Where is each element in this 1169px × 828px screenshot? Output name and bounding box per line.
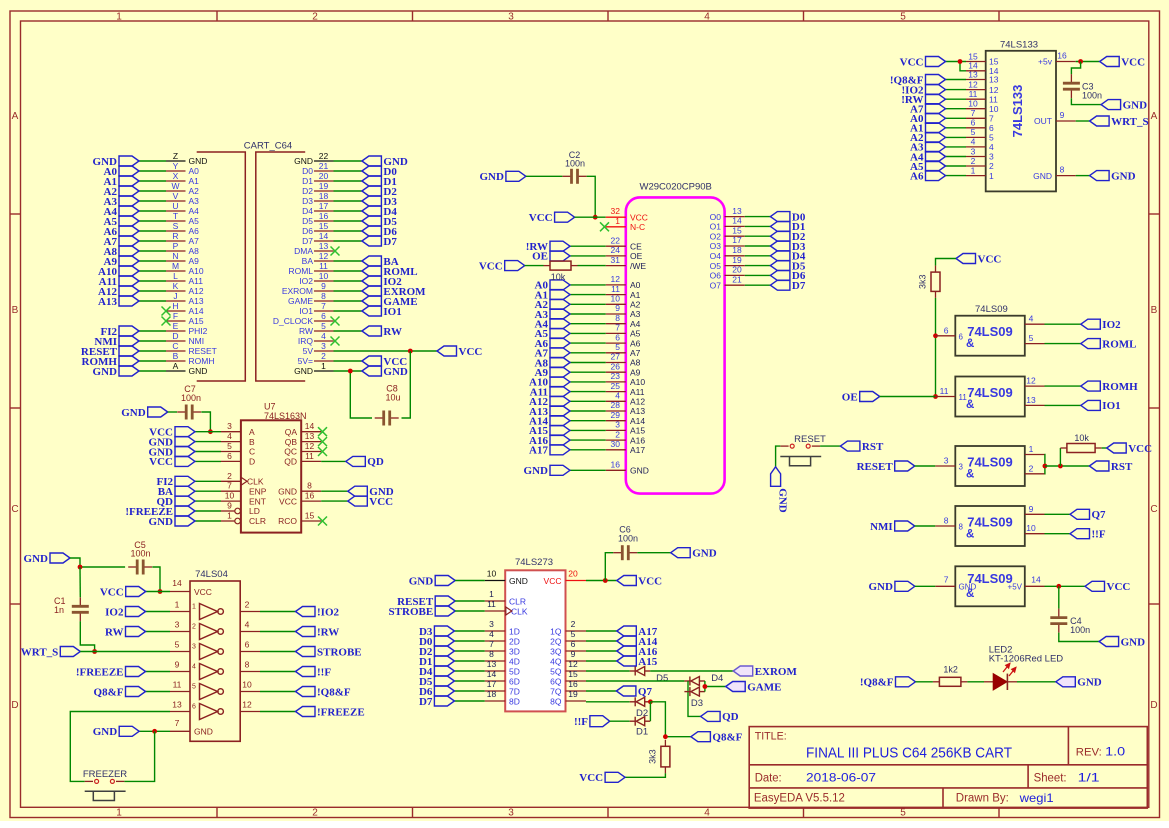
svg-text:26: 26 bbox=[611, 361, 621, 371]
svg-text:K: K bbox=[173, 281, 179, 291]
svg-text:10u: 10u bbox=[385, 393, 400, 403]
svg-text:VCC: VCC bbox=[149, 456, 173, 468]
svg-text:7D: 7D bbox=[509, 687, 520, 697]
wire net ROMH to CART_C64 pin B bbox=[139, 360, 166, 362]
net flag RW bbox=[362, 326, 402, 338]
svg-text:30: 30 bbox=[611, 439, 621, 449]
svg-text:NMI: NMI bbox=[189, 336, 205, 346]
wire C6 branch bbox=[605, 553, 613, 581]
svg-text:ROML: ROML bbox=[288, 266, 313, 276]
svg-text:VCC: VCC bbox=[1128, 443, 1152, 455]
net flag ROMH bbox=[1081, 381, 1138, 393]
svg-text:74LS04: 74LS04 bbox=[195, 569, 228, 580]
net flag RST at switch bbox=[840, 441, 884, 453]
connector CART_C64 right pin 15 D6 bbox=[302, 221, 333, 236]
wire FREEZER switch to GND bbox=[124, 731, 154, 781]
IC 74LS09 pin 7 GND bbox=[935, 574, 976, 591]
svg-text:8: 8 bbox=[321, 291, 326, 301]
svg-text:20: 20 bbox=[568, 569, 578, 579]
wire CART_C64 pin 12 to net BA bbox=[334, 260, 362, 262]
svg-text:BA: BA bbox=[302, 256, 314, 266]
svg-text:13: 13 bbox=[732, 206, 742, 216]
svg-text:GND: GND bbox=[93, 726, 118, 738]
wire net GND to CART_C64 pin A bbox=[139, 370, 166, 372]
svg-text:VCC: VCC bbox=[194, 587, 212, 597]
wire net FI2 to CART_C64 pin E bbox=[139, 330, 166, 332]
svg-text:3: 3 bbox=[508, 12, 514, 23]
IC U7 pin 7 ENP bbox=[221, 481, 267, 497]
svg-text:22: 22 bbox=[319, 151, 329, 161]
svg-text:3k3: 3k3 bbox=[918, 274, 928, 289]
svg-text:74LS09: 74LS09 bbox=[967, 515, 1013, 530]
svg-text:ENP: ENP bbox=[249, 486, 267, 496]
svg-text:16: 16 bbox=[1057, 51, 1067, 61]
net flag !IO2 bbox=[296, 606, 340, 618]
svg-text:GND: GND bbox=[189, 366, 208, 376]
connector CART_C64 left pin J A13 bbox=[166, 291, 204, 306]
svg-text:A15: A15 bbox=[630, 426, 645, 436]
svg-text:A2: A2 bbox=[630, 300, 641, 310]
IC 74LS133 pin 16 +5v bbox=[1038, 51, 1076, 67]
svg-text:A6: A6 bbox=[189, 226, 200, 236]
svg-text:1: 1 bbox=[489, 589, 494, 599]
no-connect X on U7 pin 12 bbox=[318, 447, 327, 456]
svg-text:8D: 8D bbox=[509, 697, 520, 707]
svg-text:CLK: CLK bbox=[511, 607, 528, 617]
resistor 1k2 bbox=[933, 677, 968, 686]
IC U2 pin 13 O0 bbox=[710, 206, 745, 222]
svg-text:N-C: N-C bbox=[630, 222, 645, 232]
svg-text:11: 11 bbox=[487, 599, 496, 609]
IC U2 pin 24 OE bbox=[606, 245, 643, 261]
svg-text:15: 15 bbox=[732, 225, 742, 235]
svg-text:6: 6 bbox=[989, 123, 994, 133]
svg-text:A5: A5 bbox=[189, 216, 200, 226]
IC U2 pin 22 CE bbox=[606, 235, 642, 251]
svg-text:9: 9 bbox=[175, 660, 180, 670]
connector CART_C64 right pin 18 D3 bbox=[302, 191, 333, 206]
svg-text:OE: OE bbox=[842, 391, 858, 403]
wire net A4 to CART_C64 pin U bbox=[139, 210, 166, 212]
IC 74LS09 input pin 3 bbox=[935, 456, 963, 472]
net flag D2 bbox=[362, 186, 397, 198]
svg-text:ROMH: ROMH bbox=[1102, 381, 1138, 393]
svg-text:5: 5 bbox=[1029, 333, 1034, 343]
net flag GND at C5 bbox=[24, 553, 70, 565]
net flag A11 bbox=[99, 276, 139, 288]
svg-text:A2: A2 bbox=[189, 186, 200, 196]
wire VCC flag to resistor 10k bbox=[525, 265, 544, 267]
wire 3k3 to VCC bbox=[625, 773, 665, 777]
IC 74LS273 pin 17 7D bbox=[485, 679, 520, 697]
svg-text:J: J bbox=[173, 291, 177, 301]
svg-text:O3: O3 bbox=[710, 241, 722, 251]
svg-text:A12: A12 bbox=[189, 286, 204, 296]
wire CART_C64 pin 1 to net GND bbox=[334, 370, 362, 372]
frame column labels top bbox=[116, 12, 906, 23]
svg-text:GND: GND bbox=[959, 583, 977, 592]
svg-text:18: 18 bbox=[319, 191, 329, 201]
wire 74LS273 5Q to diode D5 bbox=[586, 670, 630, 672]
svg-text:B: B bbox=[249, 437, 255, 447]
svg-text:2: 2 bbox=[245, 600, 250, 610]
svg-text:GND: GND bbox=[189, 156, 208, 166]
svg-text:13: 13 bbox=[989, 75, 999, 85]
svg-text:13: 13 bbox=[487, 659, 497, 669]
IC 74LS04 body bbox=[190, 581, 240, 741]
svg-text:ROMH: ROMH bbox=[189, 356, 215, 366]
svg-text:10k: 10k bbox=[551, 272, 566, 282]
svg-text:16: 16 bbox=[319, 211, 329, 221]
capacitor C6 bbox=[613, 545, 637, 560]
wire A4 to flash pin 8 bbox=[570, 323, 606, 325]
wire CART_C64 pin 2 to net VCC bbox=[334, 360, 362, 362]
svg-text:3: 3 bbox=[971, 146, 976, 156]
net flag !RW bbox=[296, 626, 340, 638]
svg-text:19: 19 bbox=[732, 255, 742, 265]
IC U2 pin 27 A8 bbox=[606, 352, 641, 368]
IC 74LS133 pin 1 bbox=[966, 165, 994, 180]
svg-text:1: 1 bbox=[227, 511, 232, 521]
wire A1 to 74LS133 pin 6 bbox=[946, 127, 967, 129]
wire net GND to CART_C64 pin Z bbox=[139, 160, 166, 162]
svg-text:RW: RW bbox=[105, 626, 124, 638]
wire GND flag to C5 and C1 bbox=[70, 558, 125, 567]
svg-text:1.0: 1.0 bbox=[1105, 744, 1125, 758]
svg-text:11: 11 bbox=[319, 261, 328, 271]
IC U7 pin 2 CLK bbox=[221, 471, 264, 487]
svg-text:20: 20 bbox=[319, 171, 329, 181]
svg-text:GND: GND bbox=[278, 486, 297, 496]
svg-text:VCC: VCC bbox=[279, 496, 297, 506]
svg-text:27: 27 bbox=[611, 352, 621, 362]
svg-text:5: 5 bbox=[321, 321, 326, 331]
connector CART_C64 right pin 9 EXROM bbox=[282, 281, 334, 296]
svg-text:A13: A13 bbox=[630, 406, 645, 416]
net flag A13 bbox=[529, 406, 570, 418]
svg-text:D: D bbox=[1150, 700, 1157, 711]
wire flash pin 20 to D6 bbox=[745, 274, 771, 276]
svg-text:P: P bbox=[173, 241, 179, 251]
net flag A2 bbox=[104, 186, 139, 198]
svg-text:10k: 10k bbox=[1074, 433, 1089, 443]
svg-text:2: 2 bbox=[971, 156, 976, 166]
svg-text:IO2: IO2 bbox=[299, 276, 313, 286]
svg-text:VCC: VCC bbox=[1107, 581, 1131, 593]
net flag WRT_S bbox=[21, 646, 81, 658]
wire 74LS09 pin 4 to IO2 bbox=[1045, 323, 1081, 325]
svg-text:8Q: 8Q bbox=[550, 697, 562, 707]
net flag !!F output bbox=[1070, 529, 1106, 541]
wire 74LS133 pin16 to VCC bbox=[1076, 61, 1100, 63]
wire 74LS04 pin 2 to !IO2 bbox=[260, 611, 296, 613]
svg-text:/WE: /WE bbox=[630, 261, 646, 271]
net flag GND at C7 bbox=[121, 407, 167, 419]
svg-text:OUT: OUT bbox=[1034, 116, 1052, 126]
svg-text:5: 5 bbox=[571, 629, 576, 639]
IC 74LS133 pin 6 bbox=[966, 118, 994, 133]
svg-text:O6: O6 bbox=[710, 271, 722, 281]
IC U7 pin 8 GND bbox=[278, 481, 321, 497]
svg-text:QA: QA bbox=[285, 427, 298, 437]
svg-text:4: 4 bbox=[989, 142, 994, 152]
svg-text:1: 1 bbox=[1029, 444, 1034, 454]
IC 74LS133 pin 15 bbox=[966, 51, 999, 66]
wire U7 pin 16 to VCC bbox=[321, 500, 348, 502]
svg-text:31: 31 bbox=[611, 255, 621, 265]
svg-text:7: 7 bbox=[227, 481, 232, 491]
net flag GAME bbox=[362, 296, 418, 308]
net flag RST bbox=[1089, 461, 1133, 473]
net flag VCC at 3k3 pullup bbox=[956, 253, 1001, 265]
net flag A16 bbox=[617, 646, 658, 658]
wire CART_C64 pin 3 5V to VCC bbox=[334, 350, 438, 352]
svg-text:5: 5 bbox=[192, 684, 196, 691]
svg-text:GND: GND bbox=[692, 548, 717, 560]
net flag VCC at 10k pullup bbox=[479, 260, 525, 272]
svg-text:FREEZER: FREEZER bbox=[83, 769, 127, 780]
wire VCC to resistor 3k3 bbox=[936, 259, 957, 266]
IC 74LS133 body bbox=[986, 51, 1056, 192]
connector CART_C64 left pin Y A0 bbox=[166, 161, 199, 176]
svg-text:100n: 100n bbox=[618, 534, 638, 544]
net flag RESET at 74LS273 bbox=[397, 596, 455, 608]
svg-text:8: 8 bbox=[1060, 165, 1065, 175]
svg-text:3: 3 bbox=[959, 463, 964, 472]
resistor 3k3 pullup bbox=[931, 266, 940, 298]
svg-text:D5: D5 bbox=[302, 216, 313, 226]
IC 74LS133 pin 7 bbox=[966, 108, 994, 123]
IC U2 pin 19 O5 bbox=[710, 255, 745, 271]
svg-text:4: 4 bbox=[704, 808, 710, 819]
wire !RW to flash pin 22 bbox=[570, 245, 606, 247]
net flag A2 bbox=[535, 299, 570, 311]
svg-text:3k3: 3k3 bbox=[648, 749, 658, 764]
svg-text:GND: GND bbox=[294, 366, 313, 376]
resistor 3k3 (bottom) bbox=[661, 740, 670, 774]
svg-text:D3: D3 bbox=[691, 698, 703, 709]
svg-text:100n: 100n bbox=[130, 549, 150, 559]
svg-text:7: 7 bbox=[944, 574, 949, 584]
svg-text:11: 11 bbox=[940, 386, 949, 396]
wire pin14 branch down to C4 bbox=[1058, 586, 1060, 608]
svg-text:VCC: VCC bbox=[479, 260, 503, 272]
net flag STROBE at 74LS273 bbox=[389, 606, 456, 618]
wire C3 to GND flag bbox=[1071, 98, 1101, 104]
svg-text:6: 6 bbox=[944, 325, 949, 335]
svg-text:21: 21 bbox=[732, 274, 742, 284]
svg-text:A7: A7 bbox=[630, 348, 641, 358]
IC U7 pin 11 QD bbox=[284, 451, 321, 467]
net flag RESET input bbox=[857, 461, 915, 473]
svg-text:14: 14 bbox=[172, 578, 182, 588]
svg-text:4: 4 bbox=[227, 431, 232, 441]
wire flash pin 18 to D4 bbox=[745, 255, 771, 257]
net flag VCC bbox=[900, 56, 946, 68]
wire 74LS273 7Q to Q7 bbox=[586, 690, 616, 692]
wire OE to flash pin 24 bbox=[570, 255, 606, 257]
net flag OE input bbox=[842, 391, 880, 403]
svg-text:1: 1 bbox=[192, 604, 196, 611]
net flag FI2 bbox=[101, 326, 140, 338]
net flag !RW bbox=[526, 241, 570, 253]
svg-text:VCC: VCC bbox=[529, 212, 553, 224]
svg-text:D5: D5 bbox=[656, 673, 668, 684]
svg-text:!Q8&F: !Q8&F bbox=[860, 677, 894, 689]
IC U7 pin 5 C bbox=[221, 441, 255, 457]
wire !RW to 74LS133 pin 11 bbox=[946, 98, 967, 100]
junction GND / C5 / C1 bbox=[78, 565, 83, 570]
svg-text:FINAL III PLUS C64 256KB CART: FINAL III PLUS C64 256KB CART bbox=[806, 745, 1012, 762]
svg-text:wegi1: wegi1 bbox=[1019, 791, 1054, 805]
connector CART_C64 left pin M A10 bbox=[166, 261, 204, 276]
IC 74LS09 body bbox=[955, 446, 1025, 486]
svg-text:QD: QD bbox=[722, 711, 739, 723]
wire GND to U7 pin 1 bbox=[195, 520, 221, 522]
svg-text:1k2: 1k2 bbox=[943, 665, 958, 675]
net flag D3 bbox=[770, 241, 805, 253]
svg-text:10: 10 bbox=[225, 491, 235, 501]
svg-text:EXROM: EXROM bbox=[282, 286, 313, 296]
IC 74LS09 output pin 4 bbox=[1025, 314, 1045, 325]
connector CART_C64 right pin 5 RW bbox=[299, 321, 334, 336]
junction VCC / pin 15 / pin 14 bbox=[958, 59, 963, 64]
svg-text:QC: QC bbox=[284, 447, 297, 457]
svg-text:100n: 100n bbox=[1070, 625, 1090, 635]
net flag Q8&F bbox=[691, 732, 743, 744]
svg-text:5V: 5V bbox=[303, 346, 314, 356]
wire A2 to flash pin 10 bbox=[570, 303, 606, 305]
net flag RW bbox=[105, 626, 146, 638]
connector CART_C64 right pin 20 D1 bbox=[302, 171, 333, 186]
svg-text:IO1: IO1 bbox=[1102, 400, 1120, 412]
svg-text:!FREEZE: !FREEZE bbox=[317, 706, 365, 718]
net flag GND bbox=[149, 446, 195, 458]
net flag IO2 bbox=[105, 606, 145, 618]
IC U2 pin 21 O7 bbox=[710, 274, 745, 290]
svg-text:RW: RW bbox=[383, 326, 402, 338]
svg-text:8: 8 bbox=[944, 516, 949, 526]
svg-text:A5: A5 bbox=[630, 329, 641, 339]
wire WRT_S flag to 74LS04 pin 5 bbox=[80, 651, 170, 653]
wire D5 to 74LS273 pin 14 bbox=[454, 680, 484, 682]
no-connect X on flash pin 1 bbox=[600, 222, 609, 231]
svg-text:RESET: RESET bbox=[794, 434, 826, 445]
net flag A8 bbox=[535, 357, 570, 369]
svg-text:18: 18 bbox=[487, 689, 497, 699]
net flag D7 bbox=[362, 236, 397, 248]
svg-text:100n: 100n bbox=[181, 393, 201, 403]
svg-text:4: 4 bbox=[615, 391, 620, 401]
net flag D7 bbox=[419, 696, 454, 708]
svg-text:&: & bbox=[966, 338, 974, 350]
net flag D4 bbox=[419, 666, 454, 678]
svg-text:7: 7 bbox=[321, 301, 326, 311]
junction D4 / D3 / GAME bbox=[703, 684, 708, 689]
svg-text:A1: A1 bbox=[189, 176, 200, 186]
svg-text:100n: 100n bbox=[1082, 91, 1102, 101]
IC 74LS273 pin 10 GND bbox=[485, 569, 528, 587]
svg-text:QB: QB bbox=[285, 437, 298, 447]
connector CART_C64 left pin A GND bbox=[166, 361, 207, 376]
wire 74LS273 pin 20 to VCC bbox=[586, 580, 617, 582]
svg-text:1: 1 bbox=[116, 12, 122, 23]
IC U2 pin 8 A4 bbox=[606, 313, 641, 329]
svg-text:74LS133: 74LS133 bbox=[1000, 40, 1038, 51]
svg-text:A6: A6 bbox=[910, 170, 924, 182]
svg-text:6: 6 bbox=[615, 332, 620, 342]
net flag D1 bbox=[419, 656, 454, 668]
svg-text:!Q8&F: !Q8&F bbox=[317, 686, 351, 698]
svg-text:RESET: RESET bbox=[857, 461, 894, 473]
svg-text:2: 2 bbox=[571, 619, 576, 629]
wire net A3 to CART_C64 pin V bbox=[139, 200, 166, 202]
svg-text:10: 10 bbox=[968, 99, 978, 109]
svg-text:3: 3 bbox=[192, 644, 196, 651]
inverter gate 4 of 74LS04 (pins 9/8) bbox=[170, 660, 260, 680]
net flag Q7 bbox=[616, 686, 652, 698]
wire 74LS04 pin 10 to !Q8&F bbox=[260, 691, 296, 693]
IC U2 pin 30 A17 bbox=[606, 439, 646, 455]
net flag OE bbox=[532, 251, 570, 263]
connector CART_C64 right pin 12 BA bbox=[302, 251, 334, 266]
svg-text:74LS133: 74LS133 bbox=[1010, 85, 1025, 138]
connector CART_C64 left pin C RESET bbox=[166, 341, 217, 356]
wire RW to 74LS04 pin 3 bbox=[146, 631, 171, 633]
wire net A10 to CART_C64 pin M bbox=[139, 270, 166, 272]
net flag A12 bbox=[98, 286, 139, 298]
svg-text:Y: Y bbox=[173, 161, 179, 171]
IC U2 pin 12 A0 bbox=[606, 274, 641, 290]
net flag !IO2 bbox=[902, 84, 946, 96]
IC U2 pin 26 A9 bbox=[606, 361, 641, 377]
wire net A11 to CART_C64 pin L bbox=[139, 280, 166, 282]
svg-text:11: 11 bbox=[305, 451, 314, 461]
wire A10 to flash pin 23 bbox=[570, 381, 606, 383]
net flag A15 bbox=[529, 425, 570, 437]
wire U7 pin 11 to QD bbox=[321, 460, 346, 462]
svg-text:C: C bbox=[1150, 504, 1157, 515]
svg-text:!!F: !!F bbox=[317, 666, 331, 678]
wire OE to 74LS09 pin 11 bbox=[880, 396, 936, 398]
svg-text:4D: 4D bbox=[509, 657, 520, 667]
net flag GND bbox=[93, 366, 139, 378]
net flag A5 bbox=[104, 216, 139, 228]
svg-text:RW: RW bbox=[299, 326, 313, 336]
diode D4 bbox=[684, 677, 705, 686]
svg-text:20: 20 bbox=[732, 265, 742, 275]
net flag A12 bbox=[529, 396, 570, 408]
svg-text:10: 10 bbox=[487, 569, 497, 579]
net flag A13 bbox=[98, 296, 139, 308]
svg-text:A12: A12 bbox=[630, 397, 645, 407]
svg-text:25: 25 bbox=[611, 381, 621, 391]
svg-text:D: D bbox=[172, 331, 178, 341]
svg-text:VCC: VCC bbox=[630, 213, 648, 223]
svg-text:IO2: IO2 bbox=[105, 606, 124, 618]
net flag WRT_S at 74LS133 bbox=[1090, 116, 1149, 128]
svg-text:D4: D4 bbox=[302, 206, 313, 216]
svg-text:A4: A4 bbox=[630, 319, 641, 329]
IC U2 pin 2 A16 bbox=[606, 429, 646, 445]
svg-text:2018-06-07: 2018-06-07 bbox=[806, 770, 876, 784]
svg-text:S: S bbox=[173, 221, 179, 231]
svg-text:N: N bbox=[172, 251, 178, 261]
wire net A9 to CART_C64 pin N bbox=[139, 260, 166, 262]
wire D4 to 74LS273 pin 13 bbox=[454, 670, 484, 672]
svg-text:8: 8 bbox=[489, 649, 494, 659]
svg-text:B: B bbox=[1151, 305, 1158, 316]
